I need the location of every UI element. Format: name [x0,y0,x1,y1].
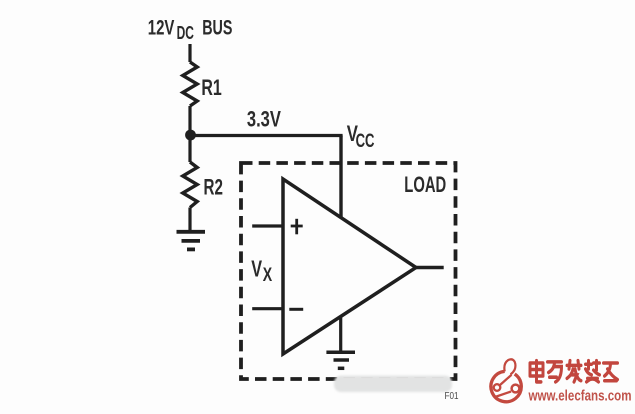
wire + input [252,224,281,227]
svg-text:3.3V: 3.3V [247,107,281,132]
svg-text:DC: DC [177,23,194,43]
wire op-amp to ground [339,316,342,352]
wire R2 to ground [188,208,191,232]
svg-text:www.elecfans.com: www.elecfans.com [528,389,632,405]
svg-text:V: V [251,256,262,282]
wire 3.3V horizontal [191,134,343,137]
node VCC label [347,121,375,152]
op-amp U1 [283,179,416,354]
watermark logo [491,359,521,401]
watermark text [530,361,618,382]
svg-text:LOAD: LOAD [404,172,446,197]
node VX label [251,256,272,286]
resistor R2 [188,135,191,162]
wire R1 to node [188,106,191,135]
pin - symbol [289,308,303,311]
svg-text:F01: F01 [445,390,459,402]
svg-text:CC: CC [356,130,375,152]
node 3.3V label [247,107,281,132]
svg-text:BUS: BUS [202,16,232,39]
svg-text:R2: R2 [204,175,223,200]
svg-text:R1: R1 [201,75,221,100]
pin + symbol [291,219,303,235]
resistor R1 [183,62,197,106]
node 12VDC BUS label [148,16,233,42]
LOAD box (dashed) [241,163,456,379]
svg-text:12V: 12V [148,16,175,39]
wire output [416,266,444,269]
ground (left) [177,232,206,250]
ground (op-amp) [326,352,355,368]
wire VCC vertical [339,136,342,219]
watermark smudge [334,376,452,392]
wire - input [252,307,281,310]
wire bus to R1 [188,44,191,62]
svg-text:X: X [263,265,273,286]
node junction dot [185,130,196,141]
